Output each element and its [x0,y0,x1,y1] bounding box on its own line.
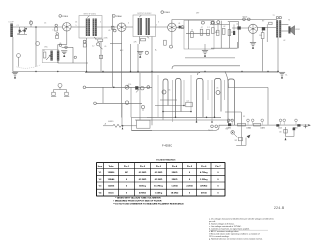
capacitor C13 circled [125,101,128,104]
ground detector [202,44,208,57]
svg-text:C1: C1 [17,25,19,27]
svg-text:.05: .05 [59,43,61,45]
table footnotes [113,196,184,205]
voltage table text [98,165,222,195]
svg-text:18.5KΩ: 18.5KΩ [171,193,179,195]
wire R11 to bus [262,39,264,72]
wire V1 plate to T1 [71,26,86,28]
tube V3 center dot [171,27,173,29]
wire rect shelf [225,111,241,113]
IF T2 secondary coil [146,18,148,35]
wire T3 to speaker bottom [281,30,288,32]
tube V1 internal electrodes [63,23,70,32]
oscillator coil T2 primary [50,51,52,61]
svg-text:V1: V1 [99,172,102,174]
label V3 12AV6 [161,11,171,14]
resistor R15 comb [186,101,192,107]
svg-text:1.5Meg: 1.5Meg [155,193,163,195]
wire B-minus bus [13,71,278,73]
wire grid network right vert [229,22,231,48]
wire screen rail [198,72,279,75]
IF T1 primary coil b [88,19,90,37]
capacitor C4 oscillator [59,44,67,48]
svg-text:2.2KΩ: 2.2KΩ [186,186,193,188]
svg-text:61.5KΩ: 61.5KΩ [139,172,147,174]
svg-text:2.2: 2.2 [207,27,209,29]
svg-text:C3: C3 [44,23,46,25]
svg-text:V5: V5 [243,116,245,118]
wire T1 secondary out [97,26,117,28]
wire right box right [267,88,269,125]
wire AVC line [172,19,277,21]
detector network box [184,20,214,49]
pot circle arrow [141,105,144,111]
resistor R18 zigzag [103,123,121,127]
wire B+ rail upper [185,57,235,59]
svg-text:61.7Meg: 61.7Meg [154,186,163,188]
svg-text:Pin 6: Pin 6 [201,166,207,168]
svg-text:F-4559C: F-4559C [162,144,172,148]
capacitor C6 below T1 [83,40,86,47]
svg-text:VOLTAGE READINGS: VOLTAGE READINGS [156,159,176,162]
svg-text:12BE6: 12BE6 [62,16,69,18]
node A circled terminal [29,21,32,27]
tube V2 12BA6 envelope [117,23,126,32]
T2 slug arrows [139,15,149,38]
junction tuning [35,26,37,28]
wire grid network top [210,23,230,25]
wire V3 to detector box [176,26,184,28]
svg-text:12BA6: 12BA6 [246,127,251,130]
svg-text:150: 150 [279,132,282,134]
svg-text:0: 0 [217,193,219,195]
label V4 50C5 [243,16,251,20]
svg-text:V2: V2 [99,179,102,181]
svg-text:.1: .1 [52,30,53,32]
volume control blob [135,86,139,92]
voltage table grid [97,163,226,196]
wire lower rail a [135,119,233,121]
wire mid vertical drop [151,72,153,126]
capacitor C19 circled [147,86,150,89]
svg-text:1.2KΩ: 1.2KΩ [171,186,178,188]
tube heater terminal circles [227,119,297,125]
wire screen stub [267,22,272,42]
svg-text:† MEASURED FROM OUTPUT SIDE OF: † MEASURED FROM OUTPUT SIDE OF FILTER [113,199,162,202]
wire below T2 drop c [151,37,153,72]
resistor R2 oscillator [43,52,46,58]
svg-text:50C5: 50C5 [108,193,114,195]
wire detector horizontal [186,32,210,34]
svg-text:3.3Meg: 3.3Meg [200,179,208,181]
svg-text:40MFD: 40MFD [108,121,114,123]
svg-text:R2: R2 [43,50,45,52]
IF T1 primary coil [86,19,88,37]
svg-text:12AV6: 12AV6 [260,127,265,130]
padder arrow oscillator [46,55,50,60]
switch box [236,126,246,145]
wire osc coil bottom [58,56,88,63]
wire heater drop right [285,127,287,137]
svg-text:V3: V3 [99,186,102,188]
tube V2 internal electrodes [118,23,125,31]
volume control R12 circled [125,85,129,89]
svg-text:470KΩ: 470KΩ [200,185,207,188]
wire osc pin [62,47,73,63]
wire V4 plate to T3 [258,27,277,29]
svg-text:T3: T3 [288,20,290,22]
svg-text:1: 1 [117,25,118,27]
svg-text:INPUT IF 455KC: INPUT IF 455KC [84,13,97,15]
wire antenna coil bottom drop [12,37,14,72]
svg-text:a. DC voltages measured at 20,: a. DC voltages measured at 20,000 ohms p… [209,218,274,221]
svg-text:0: 0 [217,179,219,181]
svg-text:.02: .02 [223,26,225,28]
svg-text:R17: R17 [226,129,229,131]
IF T1 secondary coil b [95,19,97,37]
wire T2 primary drop [139,37,141,45]
tube V3 pin circle [170,32,173,48]
blob heater a [276,124,279,126]
svg-text:.01: .01 [178,23,180,25]
grid network box edge [228,21,239,48]
capacitor C12 circled [141,87,144,90]
svg-text:Pin 1: Pin 1 [124,166,130,168]
pilot lamp branch wires [54,90,67,93]
svg-text:220K: 220K [104,38,109,40]
wire below T1 drop [99,41,102,72]
gang link dashed [17,65,42,69]
dial lamp cluster [208,125,218,132]
svg-text:3: 3 [100,22,101,24]
resistor R7 grid [207,29,210,35]
resistor R1 below grid [56,33,59,39]
svg-text:NC: NC [125,172,129,174]
label V1 12BE6 [59,15,69,18]
wire AVC lower line [94,102,142,105]
tube V4 internal electrodes [249,24,256,33]
wire grid box edge [220,21,222,48]
tube V3 internal electrodes [169,23,176,31]
svg-text:V4: V4 [99,192,102,195]
svg-text:224-B: 224-B [274,206,285,210]
output transformer T3 primary [276,20,278,37]
trimmer capacitor C1B [24,27,26,34]
wire vertical at left of volume [102,87,104,103]
pin circle detector b [211,21,214,24]
svg-text:Pin 3: Pin 3 [156,166,162,168]
junction dots comb [162,105,229,123]
svg-text:R9: R9 [262,21,264,23]
wire B-minus bus lower [85,72,200,74]
wire tuning gang drop [35,27,37,67]
wire V2 cathode drop [110,32,122,118]
coupling capacitor C11 [232,26,248,29]
svg-text:0: 0 [126,179,128,181]
wire comb join b [163,111,191,113]
svg-text:50C5: 50C5 [243,16,249,18]
svg-text:SPKR: SPKR [295,29,300,31]
svg-text:C20: C20 [186,101,189,103]
svg-text:.05: .05 [104,46,106,48]
ground below T2 [137,52,143,58]
resistor R4 below T2 [141,39,149,55]
svg-text:12BA6: 12BA6 [108,178,116,181]
svg-text:25KΩ: 25KΩ [172,179,178,181]
IF T1 secondary coil [93,19,95,37]
svg-text:Pin 7: Pin 7 [215,166,221,168]
wire T1 primary drop [86,38,88,72]
svg-text:61.5KΩ: 61.5KΩ [155,172,163,174]
ballast blob on line [228,123,231,126]
output transformer T3 secondary [279,20,281,37]
wire comb join a [155,105,184,107]
tube V1 12BE6 envelope [63,23,72,32]
tube V2 center dot [121,26,123,28]
IF transformer T2 box [133,15,156,37]
wire lower rail b [132,125,309,130]
ground V4 cathode [250,43,256,49]
resistor R3 below T1 [97,39,103,49]
resistor R8 [212,28,215,34]
wire comb join c [147,116,221,118]
line cord plus [304,124,311,128]
wire below T2 drop b [137,44,139,72]
svg-text:PILOT: PILOT [208,130,213,132]
component value labels [17,13,291,124]
junction dots B-minus bus [35,71,268,72]
svg-text:.05: .05 [168,90,170,92]
svg-text:6: 6 [158,22,159,24]
svg-text:4: 4 [128,23,129,25]
capacitor C7 at V2 grid [111,26,116,32]
svg-text:B-: B- [286,75,288,77]
capacitor C18 grid extra [233,24,235,35]
svg-text:47K: 47K [134,42,138,44]
trimmer capacitor C1A [17,27,27,34]
svg-text:470KΩ: 470KΩ [139,192,146,195]
svg-text:.05: .05 [216,88,218,90]
T3 terminal circles [276,16,281,18]
resistor R16 line [279,129,287,133]
svg-text:12BE6: 12BE6 [108,172,115,174]
wire comb join a2 [160,99,177,101]
ground right B-minus [279,72,288,78]
svg-text:g. Nominal tolerance on resist: g. Nominal tolerance on resistors makes … [209,238,263,241]
svg-text:2.2: 2.2 [92,46,94,48]
svg-text:DET: DET [196,13,199,15]
svg-text:OSC: OSC [44,47,48,49]
heater labels [226,127,297,130]
label V2 12BA6 [113,15,123,18]
wire T1 secondary drop [95,38,97,40]
capacitor C17 grid extra [216,24,219,35]
resistor R10 [228,30,231,36]
capacitor blob riser [293,128,296,131]
wire T3 to speaker top [281,24,288,26]
wire volume line [83,86,152,89]
svg-text:MEG: MEG [215,32,220,34]
svg-text:.05: .05 [108,30,110,32]
junction volume [113,87,115,89]
output box outer [132,117,153,130]
svg-text:0: 0 [189,179,191,181]
svg-text:12AV6: 12AV6 [108,185,115,188]
wire rect drop [240,112,242,126]
tube V3 12AV6 envelope [168,23,177,32]
svg-text:0: 0 [217,186,219,188]
tube V4 50C5 envelope [248,24,257,33]
svg-text:** DO NOT USE OHMMETER TO MEAS: ** DO NOT USE OHMMETER TO MEASURE FILAME… [113,202,184,205]
IF T2 primary coil b [140,18,142,35]
svg-text:AVC: AVC [120,49,124,52]
socket wiring inverted-U loops [163,79,235,126]
svg-text:SW: SW [235,140,238,142]
svg-text:Item: Item [98,165,103,168]
svg-text:61.5KΩ: 61.5KΩ [139,179,147,181]
svg-text:.02: .02 [236,24,238,26]
antenna loop coil L1 [10,24,13,38]
ground heater [285,138,287,141]
capacitor C15 circled comb [216,91,220,95]
heater resistor b [254,123,261,126]
svg-text:51Meg: 51Meg [139,186,146,188]
wire right box top [228,87,268,89]
svg-text:12AV6: 12AV6 [164,11,171,14]
wire grid network bottom [211,42,238,48]
cathode resistor R11 [261,27,265,38]
tube V1 center dot [66,26,68,28]
capacitor C10 circled b [217,21,220,24]
svg-text:Pin 4: Pin 4 [172,165,178,168]
heater resistor a [238,123,246,126]
capacitor C9 circled a [212,21,215,24]
capacitor C2 grid cluster [55,24,58,31]
svg-text:C6: C6 [75,22,77,24]
svg-text:.02: .02 [283,40,285,42]
blob heater b [297,124,300,126]
pilot lamp PL1 [58,83,62,89]
svg-text:B+: B+ [155,50,157,52]
svg-text:2: 2 [156,25,157,27]
svg-text:4.7Meg: 4.7Meg [200,171,208,174]
svg-text:T3: T3 [273,15,275,17]
resistor R14 pilot right [64,92,69,96]
ground left B-minus [12,72,18,78]
capacitor C8 at V3 plate [179,26,184,29]
resistor R6 AVC filter [200,29,203,35]
switch S1 [231,131,237,138]
wire antenna coil top to grid line [13,26,63,28]
wire T2 secondary out [150,26,168,28]
padder capacitor C5 [17,54,21,67]
svg-text:LOOP: LOOP [9,21,15,23]
socket single drop wires [158,75,225,122]
output box inner [137,120,151,128]
svg-text:Pin 2: Pin 2 [140,166,146,168]
resistor under V3 [164,40,167,45]
wire elbow to box [225,72,229,88]
IF transformer T1 box [79,16,102,39]
tuning arrow [18,28,27,34]
svg-text:VOL: VOL [128,84,131,86]
svg-text:0: 0 [217,172,219,174]
svg-text:12BA6: 12BA6 [116,15,123,18]
resistor R5 diode load [191,32,194,38]
svg-text:47: 47 [201,27,203,29]
svg-text:5: 5 [76,25,77,27]
svg-text:Pin 5: Pin 5 [187,166,193,168]
tuning gang trimmer C1 [36,42,40,46]
resistor R13 pilot left [51,92,56,96]
svg-text:25KΩ: 25KΩ [172,172,178,174]
wire V4 cathode drop [252,33,254,42]
junction C16 [121,125,137,129]
svg-text:0: 0 [189,193,191,195]
wire V1 cathode drop [66,31,68,44]
detector inner divider [188,20,190,49]
IF T2 primary coil [138,18,140,35]
svg-text:10: 10 [191,30,193,32]
svg-text:A1: A1 [30,20,32,23]
oscillator box [42,50,59,63]
wire V3 top stub [171,20,173,24]
speaker SP1 [288,26,294,35]
svg-text:0: 0 [126,186,128,188]
svg-text:* TAKEN WITH VACUUM TUBE VOLTM: * TAKEN WITH VACUUM TUBE VOLTMETER [115,196,161,199]
svg-text:61KΩ: 61KΩ [201,193,207,195]
general notes block [209,218,274,241]
svg-text:OUTPUT IF 455KC: OUTPUT IF 455KC [137,13,152,15]
svg-text:Tube: Tube [108,166,114,168]
svg-text:61.5KΩ: 61.5KΩ [155,179,163,181]
wire below T2 drop a [130,44,132,72]
oscillator coil T2 secondary [57,51,59,61]
wire B+ rail [172,66,240,69]
wire V2 plate to T2 [126,26,133,28]
svg-text:0: 0 [126,193,128,195]
pin circle detector a [201,21,204,24]
junction T3 bus [277,71,279,73]
wire heater shelf [286,129,295,137]
tube V4 center dot [252,28,254,30]
ground oscillator [61,51,67,57]
svg-text:50C5: 50C5 [278,128,282,130]
wire T3 bottom drop [277,38,279,72]
wire osc to coil [58,45,67,51]
wire AVC left vertical [112,14,114,87]
svg-text:150: 150 [259,35,262,37]
switch arrowhead [247,135,251,139]
wire box risers [122,73,163,126]
capacitor C14 circled comb [162,90,166,94]
svg-text:+B: +B [104,123,106,125]
T1 slug arrows [87,16,96,39]
svg-text:0: 0 [189,172,191,174]
resistor R9 [222,28,225,34]
IF T2 secondary coil b [148,18,150,35]
